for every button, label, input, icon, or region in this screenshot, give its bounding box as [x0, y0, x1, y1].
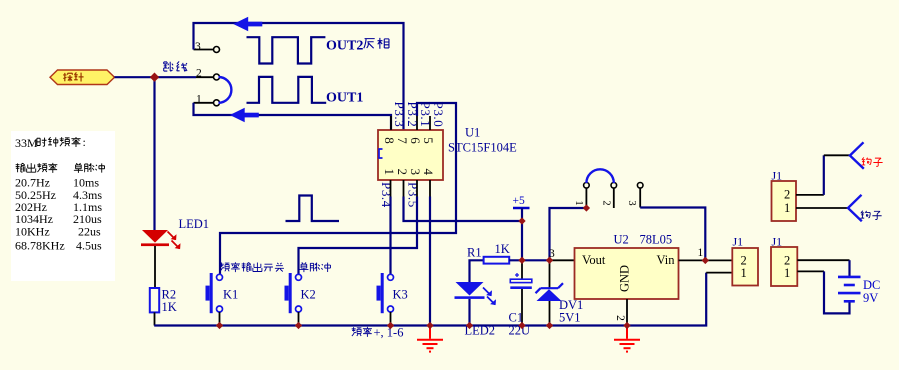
svg-text:+, 1-6: +, 1-6 [374, 326, 404, 340]
svg-text:U2: U2 [614, 233, 629, 247]
battery DC 9V [838, 277, 861, 301]
node probe junction [150, 73, 159, 82]
svg-text:1K: 1K [162, 300, 177, 314]
svg-text:7: 7 [395, 137, 410, 144]
waveform OUT2 inverted [247, 37, 326, 63]
svg-text:5: 5 [421, 137, 436, 144]
U1 pin numbers top 8 7 6 5 [382, 137, 436, 144]
wire rail riser to J1out pin1 [706, 272, 732, 274]
svg-text:P3.5: P3.5 [406, 182, 421, 208]
svg-text:K2: K2 [301, 288, 316, 302]
svg-text:K1: K1 [223, 288, 238, 302]
svg-text:1: 1 [698, 247, 704, 259]
label 钩子 (navy) [861, 211, 882, 220]
wire K1 to rail [219, 312, 221, 326]
svg-text:DC: DC [863, 278, 880, 292]
svg-text:1: 1 [784, 201, 790, 215]
svg-text:P3.1: P3.1 [418, 102, 433, 128]
single pulse symbol [286, 196, 340, 222]
svg-text:10KHz: 10KHz [15, 224, 50, 238]
wire hook1 riser [823, 155, 825, 195]
pin lead J1bat pin1 [797, 270, 824, 272]
label 频率输出开关 [220, 262, 284, 272]
jumper JP pin 1 [194, 94, 220, 106]
pin 6 stub [416, 116, 418, 130]
wire pin4 to ground rail [429, 197, 431, 326]
svg-text:4.5us: 4.5us [76, 239, 102, 253]
table title 33M clock frequency [15, 135, 86, 150]
jumper JP pin 3 [194, 41, 220, 53]
LED LED1 [141, 230, 181, 249]
label OUT2反相 [326, 38, 389, 54]
wire J2 pin3 to Vin node [640, 208, 705, 261]
svg-text:C1: C1 [509, 311, 524, 325]
svg-text:2: 2 [395, 169, 410, 176]
port 探针 probe [50, 70, 115, 85]
hook symbol 2 [848, 195, 862, 221]
svg-text:2: 2 [614, 315, 626, 321]
node +5 / pin2 wire [518, 217, 525, 224]
wire R2 to rail [154, 312, 156, 325]
pin 8 stub [390, 116, 392, 130]
bottom ground rail [154, 273, 706, 326]
svg-text:1: 1 [573, 200, 584, 205]
svg-text:33M: 33M [15, 136, 38, 150]
svg-text:2: 2 [600, 200, 611, 205]
svg-text:3: 3 [408, 169, 423, 176]
label 钩子 (red) [862, 157, 883, 166]
hook symbol 1 [850, 142, 864, 168]
regulator U2 body [575, 248, 679, 299]
wire R1 to Vout node [509, 259, 549, 261]
U1 notch mark [379, 149, 383, 158]
resistor R2 [150, 288, 159, 312]
svg-text:1K: 1K [495, 242, 510, 256]
pin Vin lead [679, 259, 733, 261]
LED LED2 [455, 282, 497, 305]
svg-text:1: 1 [784, 266, 790, 280]
jumper shunt arc pins 1-2 [219, 77, 232, 103]
wire junction to jumper pin2 [155, 76, 197, 78]
wire pin6 to K1 [220, 103, 456, 274]
wire K3 to rail [390, 312, 392, 326]
svg-text:8: 8 [382, 137, 397, 144]
svg-text:2: 2 [784, 188, 790, 202]
svg-text:OUT1: OUT1 [326, 91, 363, 106]
resistor R1 [484, 257, 510, 264]
pushbutton K3 [377, 273, 394, 313]
svg-text::: : [83, 135, 86, 149]
pin Vout lead [550, 259, 575, 261]
svg-text:1: 1 [382, 169, 397, 176]
pushbutton K1 [206, 273, 223, 313]
connector J1 (output, left) body [732, 248, 758, 286]
node K2-rail [295, 322, 302, 329]
svg-text:68.78KHz: 68.78KHz [15, 239, 65, 253]
pin GND lead [626, 299, 628, 326]
label 跳线 jumper [164, 61, 187, 71]
wire LED1 net from probe junction [153, 77, 155, 230]
node R1/C1/+5 [518, 257, 525, 264]
wire battery - loop [824, 271, 850, 313]
capacitor C1 [510, 260, 532, 325]
wire pin2 to +5 [404, 197, 523, 222]
node LED2-rail [466, 322, 473, 329]
svg-text:5V1: 5V1 [559, 311, 581, 325]
jumper J2 pin 1 [573, 183, 589, 209]
pin lead J1bat pin2 [797, 259, 849, 261]
svg-text:3: 3 [195, 41, 201, 53]
wire pin3 to K2 [299, 197, 418, 275]
U1 pin numbers bottom 1 2 3 4 [382, 169, 436, 176]
node K3-rail [387, 322, 394, 329]
node U2gnd-rail [623, 322, 630, 329]
wire Vout node up to jumper J2 [550, 208, 587, 260]
connector J1 (hooks, top) body [772, 181, 797, 221]
node DV1/Vout [546, 257, 553, 264]
power +5 symbol [513, 195, 530, 221]
wire LED2 top to R1 [470, 260, 484, 282]
pin 5 stub [429, 116, 431, 130]
signal arrow top (to pin3 net) [233, 17, 262, 31]
frequency table background [11, 131, 115, 281]
ground symbol (U2) [614, 326, 640, 352]
svg-text:Vout: Vout [582, 253, 606, 267]
wire pin1 down to bottom rail [194, 103, 392, 130]
label 频率+，1-6 [352, 326, 404, 340]
connector J1 (battery, middle) body [771, 247, 797, 286]
wire battery + [848, 260, 850, 276]
node C1-rail [518, 322, 525, 329]
label 单脉冲 (K2) [299, 262, 330, 272]
svg-text:1: 1 [741, 266, 747, 280]
svg-text:U1: U1 [465, 126, 480, 140]
pin stubs bottom 1 2 3 4 [391, 180, 431, 197]
svg-text:78L05: 78L05 [640, 233, 673, 247]
ground symbol (MCU) [417, 326, 443, 352]
wire K2 to rail [298, 312, 300, 326]
svg-text:Vin: Vin [657, 253, 676, 267]
svg-text:3: 3 [626, 200, 637, 205]
pin lead J1hook pin1 + hook2 [796, 207, 848, 209]
jumper JP pin 2 [196, 68, 220, 81]
svg-text:STC15F104E: STC15F104E [448, 141, 517, 155]
wire +5 down to Vout node [521, 221, 523, 260]
wire pin3 up to top rail [194, 23, 404, 130]
node Vin junction [702, 257, 709, 264]
node pin4-rail [426, 322, 433, 329]
svg-text:LED1: LED1 [179, 217, 210, 231]
svg-text:OUT2: OUT2 [326, 39, 363, 54]
jumper J2 pin 2 [600, 183, 616, 209]
node DV1-rail [546, 322, 553, 329]
table rows [15, 176, 102, 253]
signal arrow bottom (to pin1 net) [230, 108, 259, 122]
svg-text:6: 6 [408, 137, 423, 144]
svg-text:J1: J1 [772, 235, 783, 249]
svg-text:K3: K3 [393, 288, 408, 302]
node J2 pin1 [583, 204, 590, 211]
svg-text:22us: 22us [78, 224, 101, 238]
op IC U1 body [378, 130, 443, 180]
svg-text:+5: +5 [513, 195, 525, 207]
pin lead J1hook pin2 [796, 194, 824, 196]
svg-text:P3.0: P3.0 [431, 102, 446, 128]
wire probe to junction [115, 76, 155, 78]
waveform OUT1 [247, 77, 327, 103]
node K1-rail [216, 322, 223, 329]
svg-text:R1: R1 [467, 246, 482, 260]
svg-text:J1: J1 [772, 169, 783, 183]
wire pin1 to K3 [389, 197, 391, 275]
svg-text:4: 4 [421, 169, 436, 176]
jumper J2 shunt arc pins 1-2 [586, 169, 613, 183]
svg-text:9V: 9V [863, 291, 878, 305]
table header row [16, 163, 105, 173]
svg-text:GND: GND [617, 265, 631, 292]
pin lead hook1 [824, 154, 850, 156]
jumper J2 pin 3 [626, 183, 643, 208]
svg-text:J1: J1 [733, 235, 744, 249]
wire LED2 to rail [468, 299, 470, 326]
svg-text:P3.3: P3.3 [392, 102, 407, 128]
zener diode DV1 [536, 260, 564, 325]
pushbutton K2 [285, 273, 302, 313]
wire LED1 to R2 [154, 246, 156, 288]
